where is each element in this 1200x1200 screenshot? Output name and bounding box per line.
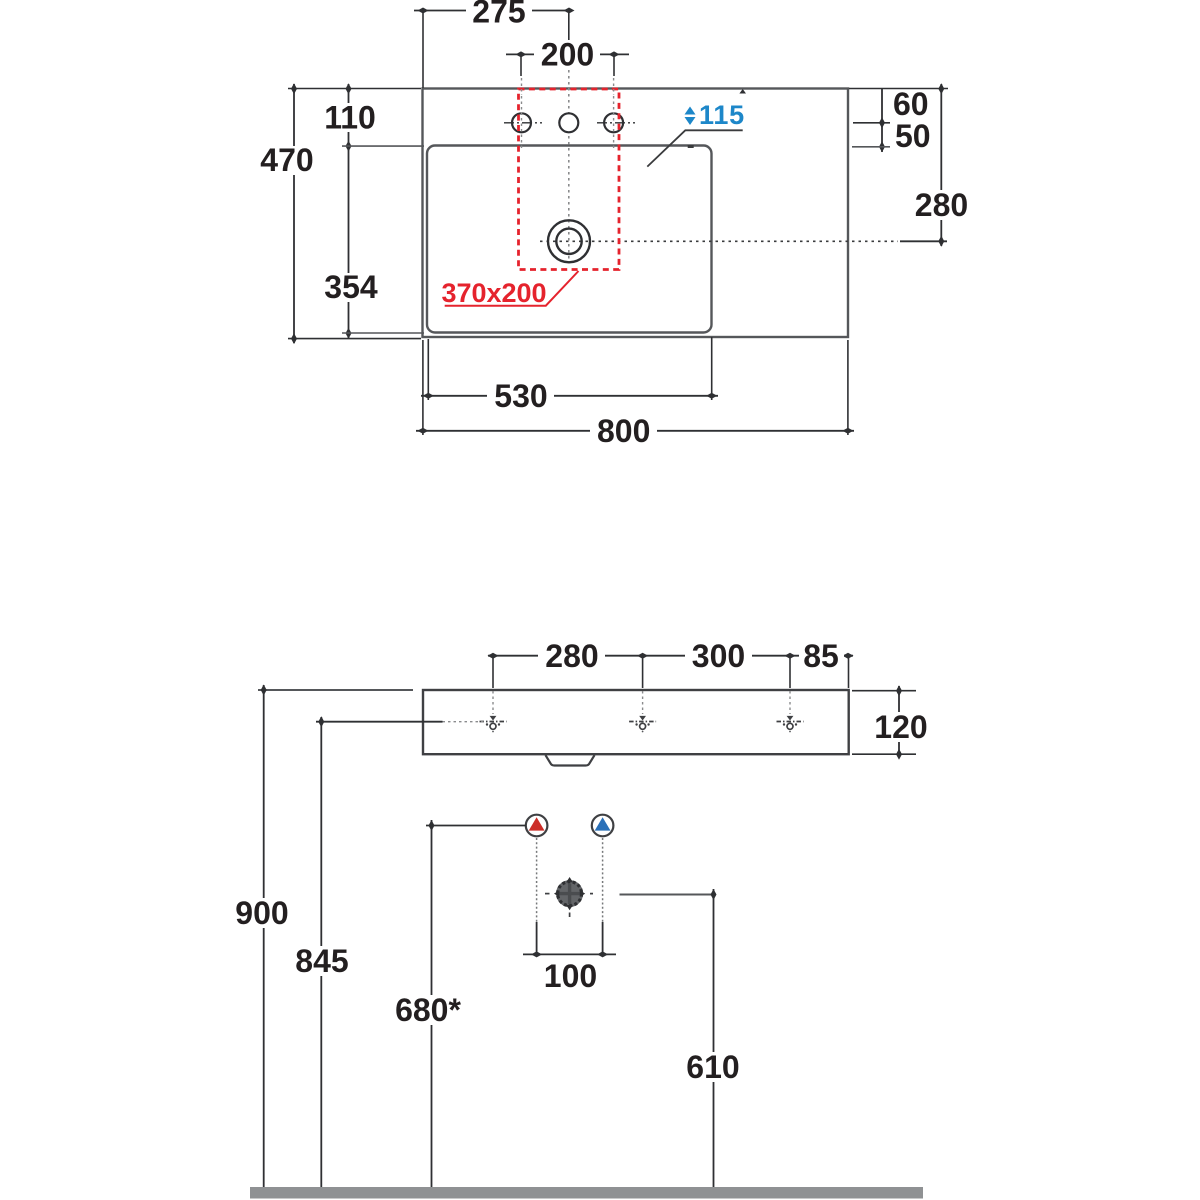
dimension 800 [416, 430, 854, 432]
dimension 530 [421, 395, 718, 397]
blue depth icon [685, 107, 696, 126]
dimension 60/50 line [881, 89, 883, 153]
svg-text:610: 610 [686, 1049, 739, 1085]
red dashed cut-out rectangle [519, 89, 620, 270]
extension top-right of rim [849, 88, 948, 90]
dotted extensions to faucet markers [492, 691, 494, 714]
extension bowl top right [852, 146, 890, 148]
extension below 200 right [613, 56, 615, 76]
svg-text:800: 800 [597, 413, 650, 449]
svg-text:280: 280 [915, 187, 968, 223]
extension hole centerline right [853, 122, 890, 124]
svg-text:370x200: 370x200 [441, 278, 546, 308]
svg-text:85: 85 [803, 638, 839, 674]
outer rim rectangle of basin (800x470) [423, 89, 849, 338]
faucet hole right [604, 113, 623, 132]
faucet hole right crosshair [597, 122, 635, 124]
extension below bowl right [711, 337, 713, 400]
svg-text:280: 280 [545, 638, 598, 674]
dimension 610 [620, 894, 714, 896]
svg-text:530: 530 [494, 378, 547, 414]
center vertical dotted line through middle hole and drain [568, 64, 570, 262]
drain inner circle [556, 229, 581, 254]
svg-text:100: 100 [544, 958, 597, 994]
mixer outlet symbol [545, 877, 594, 919]
faucet hole left crosshair [504, 122, 542, 124]
tick on bowl top edge [688, 145, 694, 148]
svg-text:680*: 680* [395, 992, 461, 1028]
extension lines from front dim down to rim [492, 657, 494, 688]
drain trap bump [546, 755, 595, 765]
extension bottom-left of rim [288, 338, 421, 340]
leader line for 115 [647, 130, 742, 166]
svg-text:900: 900 [235, 895, 288, 931]
extension bowl top left [342, 145, 424, 147]
svg-text:60: 60 [893, 86, 929, 122]
extension line right of 275 / center hole [568, 12, 570, 40]
svg-text:200: 200 [541, 37, 594, 73]
svg-text:275: 275 [472, 0, 525, 30]
dimension line 280/300/85 (front) [488, 655, 853, 657]
extension below 200 left [520, 56, 522, 76]
drain outer circle [548, 220, 590, 262]
drain horizontal dotted centerline [540, 240, 898, 242]
svg-text:50: 50 [895, 118, 931, 154]
dimension 470 line [293, 84, 295, 343]
extension bowl bottom left [342, 332, 424, 334]
extension top-left of rim [288, 88, 421, 90]
solid segment of drain centerline near 280 arrow [900, 240, 947, 242]
dimension 280 (top view) [940, 84, 942, 246]
floor bar [250, 1187, 923, 1199]
extension below bowl left [427, 339, 429, 400]
svg-text:115: 115 [699, 100, 745, 130]
svg-text:354: 354 [324, 269, 378, 305]
faucet marker right [777, 716, 804, 732]
faucet marker middle [629, 716, 656, 732]
inner bowl rectangle (530x354) [427, 146, 712, 333]
extension below rim left [422, 340, 424, 435]
faucet hole left [512, 113, 531, 132]
extension below rim right [847, 340, 849, 435]
hot water symbol [526, 815, 548, 837]
red label underline [445, 271, 579, 306]
dimension 110/354 line [348, 84, 350, 338]
dimension 845 [316, 721, 443, 723]
dimension 900 [258, 689, 413, 691]
tick on rim top edge [739, 89, 746, 94]
faucet marker left [480, 716, 507, 732]
dimension 275 [414, 10, 572, 12]
svg-text:110: 110 [324, 100, 376, 136]
dimension 680* [426, 825, 526, 827]
dimension 120 [852, 690, 916, 692]
extension line left of 275 [422, 12, 424, 88]
cold water symbol [592, 815, 614, 837]
faucet hole middle [559, 113, 578, 132]
svg-text:845: 845 [295, 943, 348, 979]
basin front rectangle [423, 690, 849, 754]
svg-text:120: 120 [874, 709, 927, 745]
dimension 100 [536, 838, 538, 922]
svg-text:470: 470 [260, 142, 313, 178]
svg-text:300: 300 [692, 638, 745, 674]
dimension 200 [506, 53, 629, 55]
